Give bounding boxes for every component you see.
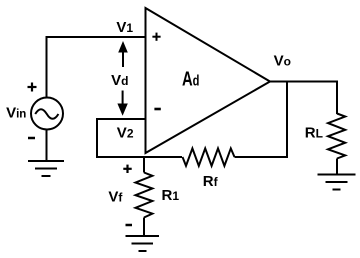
Vd down arrow: [117, 91, 127, 116]
wire from Vin to noninverting input (node V1): [47, 37, 146, 98]
resistor RL: [328, 114, 345, 159]
resistor R1: [136, 173, 153, 218]
op-amp noninverting input + mark: [152, 33, 160, 41]
feedback wire from Rf to output node: [235, 82, 288, 157]
svg-text:Vf: Vf: [108, 189, 123, 206]
ground below R1: [126, 236, 160, 251]
minus polarity of Vf: [126, 224, 133, 227]
wire from Vin to ground: [46, 129, 48, 161]
wire jog from inverting input to R1/Rf junction (node V2): [97, 119, 182, 157]
svg-text:V1: V1: [116, 19, 133, 36]
op-amp U1 triangle: [146, 8, 271, 153]
Vd up arrow: [118, 41, 128, 67]
resistor Rf: [183, 148, 235, 165]
wire from R1 to ground: [143, 218, 145, 237]
minus polarity of Vin: [28, 137, 35, 140]
wire from RL to ground: [336, 159, 338, 175]
svg-text:V2: V2: [117, 125, 134, 142]
ground below RL: [318, 175, 356, 190]
svg-text:Vd: Vd: [111, 72, 128, 89]
voltage source Vin: [31, 98, 63, 130]
svg-text:Rf: Rf: [203, 173, 219, 190]
svg-text:RL: RL: [305, 125, 323, 142]
op-amp inverting input - mark: [154, 108, 160, 111]
plus polarity of Vf: [123, 165, 131, 173]
output wire from op-amp apex to RL (node Vo): [269, 82, 337, 115]
svg-text:R1: R1: [162, 187, 180, 204]
plus polarity of Vin: [28, 83, 37, 92]
ground below Vin: [28, 161, 64, 176]
svg-text:Vo: Vo: [274, 53, 291, 70]
wire from V2 junction down to R1: [143, 157, 145, 173]
